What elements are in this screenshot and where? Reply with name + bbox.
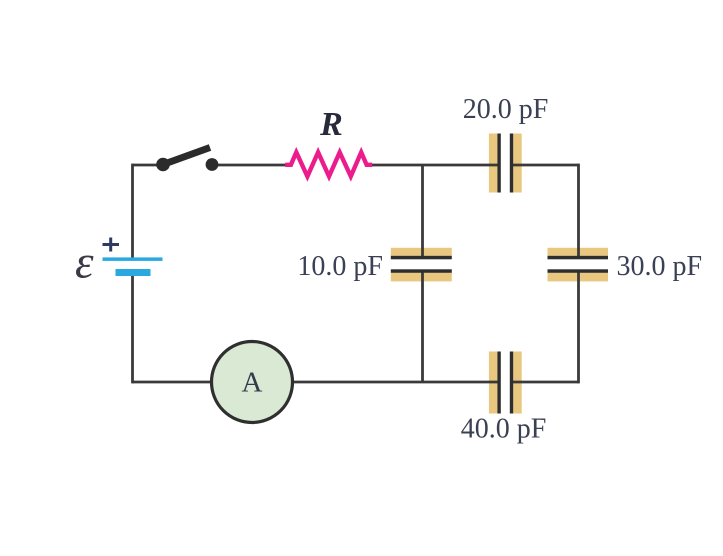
- capacitor C1 20.0 pF plate lines: [497, 134, 513, 193]
- svg-text:30.0 pF: 30.0 pF: [617, 251, 703, 282]
- capacitor C2 10.0 pF tan plates: [391, 248, 452, 282]
- svg-text:A: A: [242, 367, 263, 399]
- resistor R: [285, 152, 372, 176]
- svg-text:40.0 pF: 40.0 pF: [461, 414, 547, 445]
- wire C1 to top-right corner: [513, 164, 579, 167]
- wire right vertical upper (corner to C3): [577, 164, 580, 257]
- capacitor C4 40.0 pF tan plates: [489, 352, 522, 414]
- wire middle vertical lower (C2 to bottom junction): [421, 271, 424, 382]
- wire resistor to C1: [371, 164, 498, 167]
- capacitor C3 30.0 pF tan plates: [548, 248, 609, 282]
- svg-text:ε: ε: [75, 237, 94, 289]
- svg-text:R: R: [319, 106, 343, 143]
- capacitor C2 10.0 pF plate lines: [391, 256, 452, 273]
- ammeter A: [212, 342, 293, 423]
- wire switch to resistor: [217, 164, 286, 167]
- capacitor C4 40.0 pF plate lines: [497, 352, 513, 414]
- wire left vertical lower (battery to corner): [131, 276, 134, 383]
- wire C4 to bottom-right corner: [513, 381, 579, 384]
- wire right vertical lower (C3 to corner): [577, 271, 580, 383]
- wire bottom left (corner to ammeter): [133, 381, 213, 384]
- battery plus sign: [103, 243, 120, 246]
- wire top-left horizontal: [133, 164, 158, 167]
- wire middle vertical upper (top junction to C2): [421, 165, 424, 257]
- capacitor C1 20.0 pF tan plates: [489, 134, 522, 193]
- capacitor C3 30.0 pF plate lines: [548, 256, 609, 273]
- wire ammeter to C4: [292, 381, 498, 384]
- svg-text:20.0 pF: 20.0 pF: [463, 94, 549, 125]
- battery EMF plates: [103, 257, 163, 276]
- switch S1: [156, 148, 218, 172]
- svg-text:10.0 pF: 10.0 pF: [297, 251, 383, 282]
- wire left vertical upper (corner to battery): [131, 164, 134, 258]
